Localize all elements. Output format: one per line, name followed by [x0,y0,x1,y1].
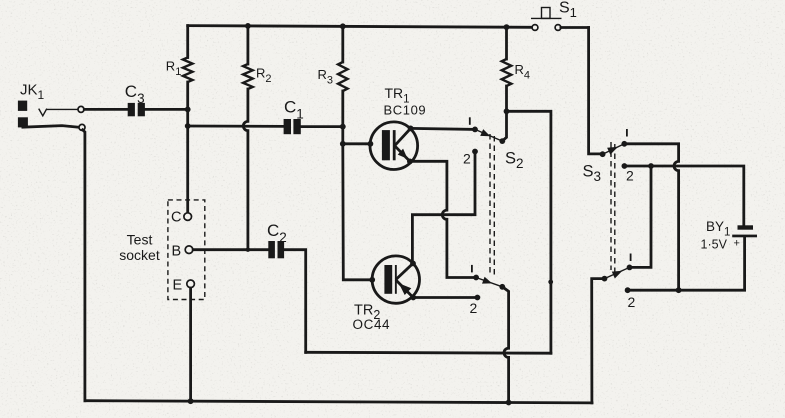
resistor R2 [243,26,271,250]
wire C2 output down to inner rail [284,250,306,353]
svg-text:Test: Test [127,232,153,248]
wire R4 node right and down to inner rail [507,111,551,353]
wire inner rail C2 to R4 node [306,351,551,355]
switch S2 top pole [499,138,505,144]
svg-text:B: B [172,244,182,260]
switch S2 bottom pole [499,284,505,290]
svg-text:2: 2 [470,300,478,316]
wire C1 to R3 / TR1 base node [301,125,343,128]
junction dot R3 top [340,23,346,29]
wire right side down to S3 top pole [589,28,601,154]
svg-text:2: 2 [463,151,471,167]
wire node down to TR2 base [343,144,372,280]
resistor R1 [166,26,193,213]
test socket pin B [185,246,193,254]
junction dot R4 bottom node [504,108,510,114]
switch S3 top blade [603,144,625,154]
wire jack tip to C3 [84,108,128,111]
svg-text:2: 2 [626,168,634,184]
junction dot R2 top [245,23,251,29]
wire S2 top contact 2 to TR2 collector [412,152,475,264]
switch S3 top contact 1 [621,141,627,147]
junction dot link on contact 2 line [648,163,654,169]
svg-text:OC44: OC44 [353,317,391,332]
svg-text:socket: socket [119,247,160,263]
wire S3 top contact 1 down to battery positive line [624,144,678,290]
switch S3 top contact 2 [622,163,628,169]
wire pin B to C2 [193,248,268,251]
switch S2 bottom blade [476,278,502,287]
jack socket JK1 [18,82,85,131]
wire jack sleeve down left side [83,130,85,401]
wire S3 bottom contact 2 to battery positive [628,237,745,290]
wire bottom rail [85,401,592,403]
test socket pin E [187,280,195,288]
resistor R3 [318,26,348,144]
wire TR1 collector to S2 top contact 1 [411,128,475,129]
junction dot base rail / R1 [185,123,191,129]
wire S1 to right corner [561,26,589,29]
junction dot TR1 base branch [340,141,346,147]
wire S3 bottom pole to bottom rail [592,279,605,403]
junction dot C3 / R1 node [185,107,191,113]
wire TR1 emitter to S2 bottom contact 1 [410,161,476,277]
switch S3 bottom pole [602,276,608,282]
junction dot contact1 line at battery positive line [676,287,682,293]
switch S2 bottom contact 1 [473,275,479,281]
switch S3 top pole [600,151,606,157]
wire base rail R1 node to C1 [188,125,284,128]
wire S3 top contact 2 to battery negative [624,166,743,225]
capacitor C3 [125,82,145,116]
junction dot R2 bottom on base line [246,248,250,252]
junction dot C1 / R3 [340,124,346,130]
switch S1 (push button) [531,0,577,30]
wire C3 to R1 bottom node [145,108,188,111]
resistor R4 [502,27,530,111]
switch S2 bottom contact 2 [475,295,481,301]
switch S2 gang link (dashed) [489,134,491,276]
wire link top contact 2 to bottom contact 1 [630,166,652,267]
svg-text:1·5V: 1·5V [701,238,728,252]
switch S3 bottom contact 2 [625,287,631,293]
wire R4 node to S2 top pole [502,111,506,141]
wire node to TR1 base [343,142,371,145]
wire top rail [188,26,533,28]
wire pin E to bottom rail [189,288,192,401]
svg-text:+: + [734,238,740,250]
battery BY1 [701,219,758,252]
test socket pin C [184,213,192,221]
junction dot (solder blob on long vertical) [548,280,553,285]
capacitor C1 [284,98,304,135]
svg-text:C: C [171,210,181,226]
junction dot R4 top [504,24,510,30]
test socket outline [168,200,205,300]
wire S2 bottom pole to bottom rail [502,287,508,403]
wire TR2 emitter to S2 bottom contact 2 [413,296,477,299]
svg-text:E: E [173,278,183,294]
junction dot E pin at bottom rail [188,398,194,404]
switch S2 top contact 1 [472,126,478,132]
switch S3 bottom contact 1 [627,265,633,271]
transistor TR1 BC109 [368,85,427,169]
junction dot bottom rail / S2 pole [506,400,512,406]
svg-text:2: 2 [628,294,636,310]
switch S3 bottom blade [605,267,630,278]
switch S2 top contact 2 [472,149,478,155]
svg-text:BC109: BC109 [384,103,427,118]
switch S2 top blade [475,129,502,141]
transistor TR2 OC44 [353,256,420,332]
switch S3 gang link (dashed) [610,142,612,270]
capacitor C2 [267,221,287,258]
